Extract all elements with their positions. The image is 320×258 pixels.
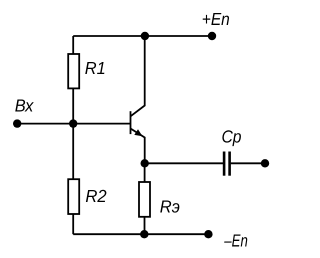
svg-text:R1: R1 bbox=[85, 58, 106, 78]
svg-text:Ср: Ср bbox=[222, 127, 242, 147]
svg-text:Rэ: Rэ bbox=[160, 197, 180, 217]
svg-text:R2: R2 bbox=[85, 186, 107, 206]
svg-text:+En: +En bbox=[202, 9, 230, 29]
svg-text:Вх: Вх bbox=[15, 95, 35, 115]
svg-text:–En: –En bbox=[224, 230, 248, 250]
